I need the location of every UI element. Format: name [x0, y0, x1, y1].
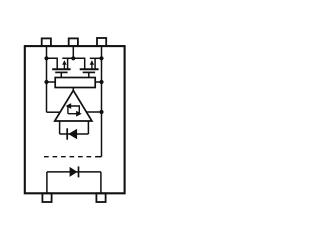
wire: right rail vertical from top-right pin	[101, 46, 103, 157]
LED D1 wire: top horizontal	[47, 171, 101, 173]
pin top-right	[97, 38, 106, 46]
LED D1 wire: left vertical from bottom-left pin	[46, 172, 48, 193]
node: right rail upper junction	[99, 56, 103, 60]
circulation symbol rectangle inside triangle	[68, 106, 79, 114]
node: right rail at triangle output	[99, 110, 103, 114]
wire: triangle output to right rail	[86, 111, 101, 113]
transistor Q2 gate bar	[83, 71, 95, 73]
control circuit box (resistor network)	[55, 78, 95, 88]
wire: left rail to box	[47, 81, 56, 83]
pin top-middle	[69, 38, 78, 46]
isolation dashed line	[44, 156, 96, 158]
wire: box bottom stub to amplifier apex	[72, 88, 74, 92]
wire: Q1 source leg	[67, 58, 69, 69]
package outline	[25, 46, 125, 193]
wire: box to right rail	[95, 81, 101, 83]
protection diode loop right vertical	[87, 121, 89, 134]
transistor Q1 gate bar	[55, 71, 67, 73]
protection diode loop left vertical	[59, 121, 61, 134]
LED D1 cathode bar	[78, 166, 80, 177]
transistor Q2 gate lead	[88, 72, 90, 77]
LED D1 triangle (pointing right)	[70, 167, 78, 177]
transistor Q1 body arrow	[63, 64, 65, 70]
node: common source junction	[71, 56, 75, 60]
circulation symbol left arrowhead	[66, 103, 72, 109]
pin bottom-left (LED anode)	[42, 193, 51, 202]
wire: top rail middle segment (Q1 source - common node - Q2 drain)	[62, 58, 84, 69]
op-amp / photodiode-array triangle	[55, 90, 92, 121]
circulation symbol right arrowhead	[76, 111, 82, 117]
diode D2 triangle (pointing left)	[68, 129, 77, 139]
node: right rail at box	[99, 80, 103, 84]
transistor Q1 gate lead	[60, 72, 62, 77]
node: left rail upper junction	[44, 56, 48, 60]
transistor Q2 channel bar	[80, 68, 99, 70]
LED D1 wire: right vertical to bottom-right pin	[100, 172, 102, 193]
wire: left rail vertical from top-left pin	[46, 46, 48, 112]
node: left rail at box	[44, 80, 48, 84]
wire: top rail left segment to Q1 drain	[47, 58, 58, 69]
wire: Q2 source leg	[94, 58, 96, 69]
pin top-left (drain pin)	[42, 38, 51, 46]
transistor Q2 body arrow	[91, 64, 93, 70]
diode D2 cathode bar	[66, 128, 68, 139]
wire: left rail horizontal into triangle left side	[47, 111, 61, 113]
wire: right rail corner into dashed line	[96, 156, 102, 158]
pin bottom-right (LED cathode)	[96, 193, 105, 202]
protection diode loop horizontal wire	[60, 133, 89, 135]
wire: top rail right segment (Q2 source to right rail)	[90, 57, 102, 59]
wire: center rail from top-middle pin to common node	[72, 46, 74, 58]
transistor Q1 channel bar	[52, 68, 70, 70]
